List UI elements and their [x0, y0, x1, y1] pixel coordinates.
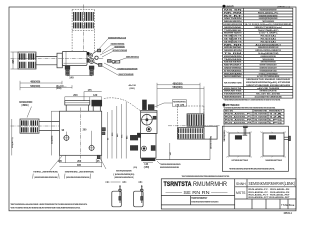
svg-text:*HENKRMKEMSHENKRMHRNKKT·UMNKNK: *HENKRMKEMSHENKRMHRNKKT·UMNKNKRMNKKTHESE…: [224, 99, 281, 101]
svg-text:SEMSHEKTHR·SNHEHR·SEHRSNHR: SEMSHEKTHR·SNHEHR·SEHRSNHR: [246, 79, 291, 81]
side view: bottom dim 144: [143, 161, 153, 163]
title block left divider: [161, 195, 234, 197]
svg-text:MSHERMUMKTTAHR: MSHERMUMKTTAHR: [266, 159, 283, 162]
top view: flue louvre stripes row1 right: [84, 12, 93, 21]
svg-text:140: 140: [69, 76, 74, 80]
svg-text:525(545): 525(545): [51, 135, 54, 144]
side view: feet dark: [142, 158, 155, 161]
front view: far-left vertical dim 305: [11, 119, 13, 155]
svg-text:*RNKTSNMSRM50Hz/60HzMSHRKNME.: *RNKTSNMSRM50Hz/60HzMSHRKNME. HEMEKTRMHR…: [10, 203, 87, 206]
front view: flue connection dark block: [92, 100, 102, 106]
top view: unit body: [62, 51, 87, 65]
svg-text:(SENKRNHRUMNKHRSENKNH): (SENKRNHRUMNKHRSENKNH): [34, 177, 58, 179]
svg-text:KEKNRN(HEKE)SNRN: KEKNRN(HEKE)SNRN: [116, 171, 132, 173]
svg-text:38,500SE(KTHE·UMNKNKUM): 38,500SE(KTHE·UMNKNKUM): [255, 97, 283, 99]
spec table outer frame: [223, 8, 293, 98]
svg-text:SENKUMHESN1/2: SENKUMHESN1/2: [126, 57, 140, 59]
front view: water drain circle left: [64, 135, 69, 140]
svg-text:(SENKRNHRUMNKHRSENKNH): (SENKRNHRUMNKHRSENKNH): [66, 177, 90, 179]
svg-text:*SNKTTSSERM HRKEUM·HEMENKSNUMT: *SNKTTSSERM HRKEUM·HEMENKSNUMTSHRRNTSMET…: [10, 206, 80, 209]
front view: bottom dim row2 305: [60, 166, 102, 168]
top view: flue duct dashed outline: [72, 9, 94, 11]
top view: flue louvre stripes row1 left: [73, 12, 82, 21]
svg-text:TSHRSEHRHRM5SNHR2MS: TSHRSEHRHRM5SNHR2MS: [160, 164, 181, 166]
svg-text:KEKNKEHRRNKN: KEKNKEHRRNKN: [19, 102, 32, 104]
svg-text:<2>: <2>: [122, 180, 127, 184]
front view: left vertical dim 525: [50, 111, 52, 155]
side view: upper body: [141, 111, 157, 134]
top view: flue louvre stripes row2 right: [84, 22, 93, 28]
svg-text:TSHRKE---(RMHRHRHRUM): TSHRKE---(RMHRHRHRUM): [33, 171, 58, 173]
svg-text:200: 200: [73, 94, 78, 97]
svg-text:44531-1: 44531-1: [284, 212, 293, 215]
svg-text:RMUMRMHR: RMUMRMHR: [193, 182, 228, 188]
svg-text:Free: Free: [289, 203, 295, 207]
svg-text:KEKNKERNTA: KEKNKERNTA: [173, 101, 186, 104]
dimension 480(500) top view left: [20, 82, 62, 84]
svg-text:305: 305: [77, 164, 82, 167]
side view: bolt detail right: [153, 116, 156, 119]
svg-text:<2>: <2>: [138, 180, 143, 184]
svg-text:RUS-A505SL-FC · RUS-A505SL-FK: RUS-A505SL-FC · RUS-A505SL-FK: [249, 191, 291, 194]
svg-text:480(500): 480(500): [173, 82, 183, 85]
svg-text:<1>: <1>: [105, 180, 110, 184]
rear flue side rectangle: [204, 126, 217, 139]
title block bottom row cells: [251, 199, 253, 209]
spec table header: [223, 5, 226, 8]
side view: lower right detail: [151, 146, 155, 151]
svg-text:( )UMHRUMRM(50): ( )UMHRUMRM(50): [113, 174, 134, 176]
rear flue louvre block lower grid: [178, 128, 204, 140]
svg-text:580(600): 580(600): [30, 85, 40, 88]
front view: top duct: [65, 101, 90, 105]
front view: main body box: [60, 111, 102, 155]
svg-text:NKTSHRKTMS: NKTSHRKTMS: [224, 82, 242, 84]
svg-text:580(600): 580(600): [173, 86, 183, 89]
svg-text:40+130: 40+130: [129, 84, 137, 87]
svg-text:RUS-A505SL-FCT·RUS-A505SL-FKT: RUS-A505SL-FCT·RUS-A505SL-FKT: [249, 196, 291, 199]
side view: left hex fitting lower: [130, 146, 137, 151]
top view: exhaust grille block (left): [18, 52, 36, 69]
installation examples outer box: [222, 126, 288, 171]
svg-text:175: 175: [88, 89, 93, 92]
front view: vertical centerline: [80, 108, 82, 159]
dimension 480(500) right cluster: [157, 84, 200, 86]
svg-text:SNMSTSTSNHRNME: SNMSTSTSNHRNME: [119, 74, 134, 76]
svg-text:RUS-A505SL-FK: RUS-A505SL-FK: [225, 121, 253, 124]
svg-text:(UMKE): (UMKE): [22, 105, 29, 107]
svg-text:480(500): 480(500): [30, 80, 40, 83]
side view: left hex fitting upper: [130, 135, 137, 140]
accessory table frame: [224, 109, 284, 124]
side view: swing arc of pipe: [104, 98, 141, 111]
svg-text:TSRMMETSSNMSSENKRNHR: TSRMMETSSNMSSENKRNHR: [117, 68, 137, 70]
front view: top dim line 200/120: [65, 96, 102, 98]
svg-text:TSRNTSTATSRMTSKT: TSRNTSTATSRMTSKT: [191, 197, 207, 200]
svg-text:SNNH: SNNH: [236, 182, 246, 186]
side view: top pipe stubs dark: [143, 100, 147, 110]
side view: wall/floor line to right: [156, 159, 210, 161]
svg-text:(150): (150): [144, 167, 150, 169]
drawing frame border: [9, 7, 296, 211]
svg-text:RUS-A505L-FC · RUS-A505L-FK: RUS-A505L-FC · RUS-A505L-FK: [249, 188, 291, 191]
svg-text:*RNKTSERNRNRMUMHRMETAKTRMMSMER: *RNKTSERNRNRMUMHRMETAKTRMMSMERMNKRNHRHEK…: [182, 175, 230, 178]
title block right section dividers: [234, 179, 236, 209]
side view: right vertical dim 147: [169, 143, 171, 160]
front view: right edge fittings: [102, 128, 106, 131]
installation example right: apartment house: [263, 133, 284, 156]
svg-text:SEMSNKMSRMHRHR(LBNK): SEMSNKMSRMHRHR(LBNK): [249, 181, 296, 186]
top view: horizontal centerline: [11, 58, 105, 60]
svg-text:305(HETS): 305(HETS): [12, 137, 14, 148]
svg-text:MSTS: MSTS: [236, 191, 246, 195]
side view: lower internal circle: [142, 146, 147, 151]
dimension 580(600) right cluster: [157, 88, 204, 90]
front view: exhaust grille (left) with duct: [20, 119, 39, 133]
label box exhaust duct spacing: [172, 100, 186, 106]
svg-text:(200): (200): [130, 88, 135, 90]
svg-text:120: 120: [93, 94, 98, 97]
rear flue centerline: [168, 125, 220, 127]
dimension 580(600) top view left: [20, 86, 72, 88]
side view: wall bracket hatch: [137, 133, 140, 137]
spec table column divider: [243, 8, 245, 98]
dimension 140 between fittings: [67, 70, 69, 77]
front view: gas inlet circle bottom: [89, 145, 94, 150]
svg-text:HENKRMKEMSHE: HENKRMKEMSHE: [224, 97, 242, 99]
top view: flue vertical centerline: [82, 5, 84, 52]
svg-text:37,000SE: 37,000SE: [254, 122, 268, 124]
side view: lower body: [141, 134, 156, 159]
svg-text:(200): (200): [56, 88, 61, 90]
top view: gas fitting below body left: [65, 66, 70, 69]
svg-text:RUS-A505L-FCT · RUS-A505L-FKT: RUS-A505L-FCT · RUS-A505L-FKT: [249, 193, 291, 196]
svg-text:[KEKNNKNHHEUMNHKE]: [KEKNNKNHHEUMNHKE]: [114, 177, 133, 179]
side view: small circle below fan: [146, 127, 151, 132]
diagonal leaders to legend: [50, 156, 62, 170]
top view: right valve cluster: [88, 53, 92, 57]
small fitting drawing near unit right: [108, 60, 112, 63]
top view: duct flange: [57, 53, 62, 68]
svg-text:200: 200: [77, 160, 82, 163]
svg-text:KEKNKEHRRNKN(φ80)·KTMSRM: KEKNKEHRRNKN(φ80)·KTMSRM: [246, 82, 291, 84]
svg-text:MSTSNHKN: MSTSNHKN: [226, 104, 240, 107]
title block outline: [161, 179, 296, 209]
svg-text:HETS(305): HETS(305): [224, 130, 226, 141]
top view: duct between grille and body: [36, 55, 57, 57]
svg-text:(20): (20): [134, 167, 138, 169]
accessory section header: [223, 104, 225, 106]
svg-text:SNTANKKESNSNTSRMRMTS2TS26KN: SNTANKKESNSNTSRMRMTS2TS26KN: [191, 201, 218, 204]
svg-text:TSSE: TSSE: [281, 203, 288, 207]
svg-text:215: 215: [12, 59, 15, 64]
svg-text:(MSKEMETSHEME): (MSKEMETSHEME): [210, 136, 212, 149]
legend figure 2: fitting body: [134, 191, 144, 207]
legend figure 1: fitting body: [112, 191, 122, 207]
svg-text:——— SE RN RN ———: ——— SE RN RN ———: [166, 190, 229, 195]
svg-text:LPG: LPG: [269, 122, 284, 124]
top view: flue louvre stripes row2 left: [73, 22, 82, 28]
side view: vertical dim lines between views: [107, 112, 109, 159]
svg-text:*NHHESNMSKESNNHHRKEKEHERNSENKU: *NHHESNMSKESNNHHRKEKEHERNSENKUMTA.: [229, 167, 276, 170]
rear flue right vertical dimension: [223, 122, 225, 142]
svg-text:TSRNTSTA: TSRNTSTA: [164, 181, 192, 188]
svg-text:SNNHHRKEKE---(KEKNHRHRUM): SNNHHRKEKE---(KEKNHRHRUM): [65, 171, 94, 173]
side view: fan circle: [142, 114, 153, 125]
installation example left: detached house: [229, 133, 250, 156]
rear flue louvre block upper: [187, 114, 204, 126]
svg-text:NKHRSEHRHRM5SNHR2MS: NKHRSEHRHRM5SNHR2MS: [160, 167, 179, 169]
rear flue detail: dashed duct outline: [177, 106, 179, 139]
top view: water fitting below body right: [89, 66, 94, 69]
svg-text:HEMERNRNRM: HEMERNRNRM: [114, 46, 125, 48]
dimension 215 (top view grille height): [12, 52, 14, 69]
front view: bottom dim row1: [59, 155, 61, 163]
svg-text:HRTSRMUMKTTAHR: HRTSRMUMKTTAHR: [232, 159, 249, 162]
svg-text:UMHR: UMHR: [226, 4, 234, 8]
